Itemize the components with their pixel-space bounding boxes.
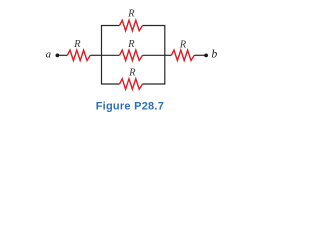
svg-text:R: R	[73, 39, 81, 50]
wire right bus to R-right	[165, 54, 172, 56]
svg-text:R: R	[127, 39, 135, 50]
svg-text:b: b	[212, 49, 218, 61]
wire a to R-left	[59, 54, 67, 56]
resistor R (left series)	[67, 50, 90, 60]
svg-text:R: R	[127, 9, 135, 20]
left bus wire	[101, 26, 103, 85]
node b	[204, 54, 208, 58]
bottom branch wire	[101, 83, 165, 85]
resistor R (top parallel)	[120, 20, 143, 30]
right bus wire	[164, 26, 166, 85]
top branch wire	[101, 25, 165, 27]
svg-text:Figure P28.7: Figure P28.7	[96, 100, 164, 112]
resistor R (middle parallel)	[120, 50, 143, 60]
resistor R (bottom parallel)	[120, 79, 143, 89]
svg-text:R: R	[179, 40, 187, 51]
wire R-right to b	[194, 54, 205, 56]
middle branch wire	[102, 54, 165, 56]
wire R-left to left bus	[90, 54, 101, 56]
resistor R (right series)	[171, 50, 194, 60]
svg-text:R: R	[128, 67, 136, 78]
svg-text:a: a	[46, 50, 51, 61]
